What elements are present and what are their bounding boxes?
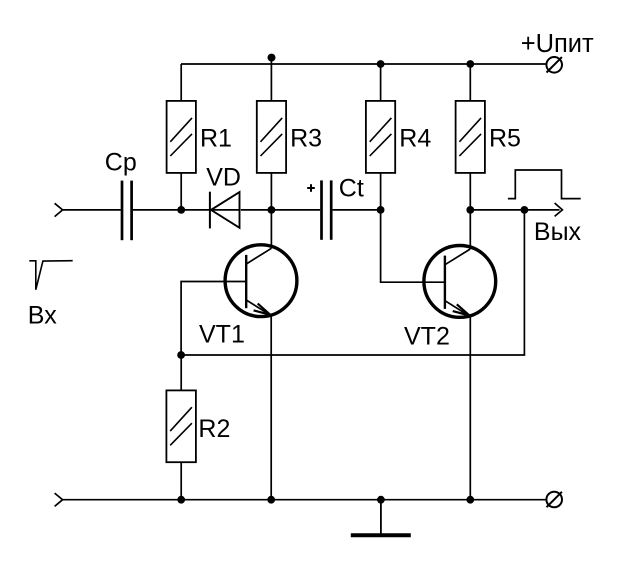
svg-text:Вых: Вых	[534, 218, 582, 246]
node D (R5/VT2 collector junction)	[466, 206, 474, 214]
output pulse waveform symbol	[508, 170, 581, 199]
capacitor Cp	[122, 181, 132, 241]
node B (R3/VT1 collector junction)	[268, 206, 276, 214]
svg-text:+Uпит: +Uпит	[521, 30, 594, 58]
node dot rail VT1 emitter	[267, 496, 275, 504]
svg-text:R2: R2	[198, 415, 230, 443]
wire Cp to diode	[133, 209, 240, 211]
node dot rail VT2 emitter	[466, 496, 474, 504]
svg-text:R1: R1	[200, 124, 232, 152]
ground	[351, 500, 411, 536]
node dot rail R4	[377, 60, 385, 68]
node F (R2/base/feedback junction)	[177, 351, 185, 359]
bottom terminal arrow	[55, 493, 63, 506]
wire top supply rail	[181, 63, 546, 65]
svg-text:Cр: Cр	[105, 149, 137, 177]
wire input to Cp	[63, 209, 121, 211]
transistor VT2	[424, 210, 496, 500]
svg-text:R5: R5	[489, 124, 521, 152]
node C (R4/VT2 base junction)	[377, 206, 385, 214]
resistor R5	[456, 64, 485, 210]
svg-text:Вх: Вх	[28, 302, 57, 330]
svg-text:R4: R4	[399, 124, 431, 152]
resistor R2	[166, 355, 196, 500]
node A (Cp/R1/VD junction)	[177, 206, 185, 214]
svg-text:Ct: Ct	[339, 175, 364, 203]
node dot rail R5	[466, 60, 474, 68]
wire VT2 base lead	[381, 210, 445, 282]
output arrow head	[555, 203, 563, 216]
node E (output feedback junction)	[521, 206, 529, 214]
resistor R3	[257, 58, 286, 210]
wire R5 node to output arrow	[470, 209, 559, 211]
resistor R4	[366, 64, 395, 210]
terminal bottom common	[546, 492, 562, 508]
node dot rail ground stub	[377, 496, 385, 504]
svg-text:VT1: VT1	[199, 321, 245, 349]
transistor VT1	[225, 210, 297, 500]
wire Ct to node C	[333, 209, 381, 211]
wire feedback output to base node	[181, 210, 524, 355]
capacitor Ct	[322, 180, 332, 239]
input waveform symbol Vh	[29, 261, 72, 290]
node dot rail R2	[177, 496, 185, 504]
node dot above R3	[268, 54, 276, 62]
svg-text:VT2: VT2	[404, 323, 450, 351]
wire diode to Ct	[241, 209, 320, 211]
label Ct plus polarity	[307, 184, 315, 192]
resistor R1	[167, 64, 196, 210]
wire VT1 base lead	[181, 282, 246, 356]
diode VD	[210, 192, 240, 229]
svg-text:VD: VD	[206, 164, 241, 192]
wire bottom ground rail	[63, 499, 547, 501]
terminal +Upit	[546, 57, 562, 73]
svg-text:R3: R3	[290, 124, 322, 152]
input terminal arrow	[55, 203, 63, 216]
